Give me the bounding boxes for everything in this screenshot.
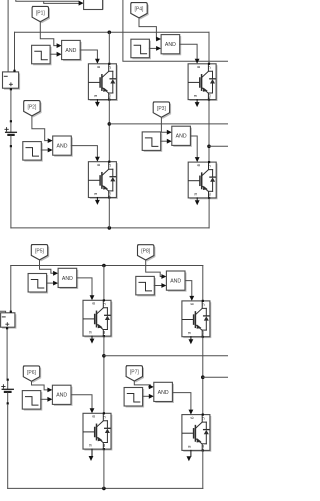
DC voltage source 2 bbox=[2, 314, 16, 328]
tag P2 (From) bbox=[24, 101, 42, 118]
AND gate U6 bbox=[52, 385, 72, 406]
transistor IGBT2 bbox=[188, 63, 217, 101]
wire: P6 to AND6 input 1 bbox=[32, 381, 48, 390]
wire: bus1 to IGBT1 collector bbox=[108, 32, 110, 62]
transistor IGBT1 bbox=[88, 63, 117, 101]
AND gate U5 bbox=[58, 268, 78, 289]
pulse generator P4 bbox=[131, 39, 151, 59]
svg-text:[P3]: [P3] bbox=[157, 106, 167, 112]
wire: pulse4 to AND4 input 2 bbox=[149, 47, 156, 49]
wire: AND4 output to IGBT2 gate bbox=[180, 44, 197, 61]
DC voltage source 1 bbox=[4, 73, 20, 89]
wire: battery 1 to bottom bus 1 bbox=[10, 147, 12, 228]
wire: IGBT1 emitter to node A and IGBT3 collector bbox=[108, 100, 110, 162]
wire: IGBT4 m port stub bbox=[196, 198, 198, 201]
wire: IGBT6 m port stub bbox=[190, 337, 192, 340]
node: bus2 bottom / IGBT7 emitter bbox=[102, 487, 106, 491]
pulse generator P1 bbox=[32, 45, 52, 65]
wire: bus1 right corner down to IGBT2 collector bbox=[208, 32, 210, 63]
wire: IGBT2 emitter to node B and IGBT4 collector bbox=[208, 100, 210, 163]
wire: P3 to AND3 input 1 bbox=[161, 117, 166, 132]
transistor IGBT3 bbox=[88, 161, 117, 199]
svg-text:[P2]: [P2] bbox=[27, 105, 37, 111]
svg-text:[P6]: [P6] bbox=[27, 370, 37, 376]
wire: pulse8 to AND8 input 2 bbox=[154, 285, 161, 287]
wire: IGBT3 emitter to bottom bus 1 bbox=[108, 198, 110, 228]
pulse generator P2 bbox=[23, 142, 43, 162]
pulse generator P8 bbox=[136, 276, 156, 296]
wire: AND6 output to IGBT7 gate bbox=[71, 395, 92, 411]
wire: P4 to AND4 input 1 bbox=[139, 18, 157, 39]
wire: AND2 output to IGBT3 gate bbox=[71, 146, 97, 160]
tag P3 (From) bbox=[153, 102, 171, 119]
wire: IGBT7 m port stub bbox=[91, 449, 93, 456]
wire: AND7 output to IGBT8 gate bbox=[173, 393, 191, 413]
transistor IGBT7 bbox=[83, 412, 112, 450]
svg-text:[P5]: [P5] bbox=[35, 249, 45, 255]
tag P6 (From) bbox=[23, 366, 41, 383]
tag P4 (From) bbox=[131, 3, 149, 20]
wire: P7 to AND7 input 1 bbox=[134, 381, 150, 387]
wire: bottom DC bus 1 bbox=[11, 227, 209, 229]
wire: P5 to AND5 input 1 bbox=[40, 260, 53, 273]
wire: top bus 2 drop to DC source 2 bbox=[10, 266, 12, 311]
node B: leg B midpoint bbox=[207, 145, 211, 149]
wire: source 2 to battery 2 bbox=[6, 329, 8, 378]
AND gate U3 bbox=[172, 126, 192, 147]
wire: pulse5 to AND5 input 2 bbox=[47, 282, 53, 284]
wire: node B2 output to right edge bbox=[203, 376, 228, 378]
battery element 1 bbox=[10, 120, 12, 122]
wire: source 1 to battery 1 bbox=[10, 90, 12, 120]
wire: left feed into DC source 1 bbox=[7, 0, 9, 72]
wire: node A2 output to right edge bbox=[104, 355, 228, 357]
wire: node A output to right edge bbox=[109, 123, 228, 125]
wire: P1 to AND1 input 1 bbox=[40, 21, 56, 45]
wire: IGBT7 emitter to bottom bus 2 bbox=[103, 449, 105, 488]
svg-text:[P7]: [P7] bbox=[130, 370, 140, 376]
wire: IGBT1 m port stub bbox=[96, 100, 98, 103]
wire: double signal line to top scope bbox=[16, 0, 79, 3]
tag P5 (From) bbox=[31, 245, 49, 262]
pulse generator P7 bbox=[124, 388, 144, 408]
node: bus2 / IGBT5 collector bbox=[102, 264, 106, 268]
battery element 2 bbox=[7, 379, 9, 381]
node B2: bridge 2 leg B midpoint bbox=[201, 375, 205, 379]
AND gate U7 bbox=[154, 382, 174, 403]
tag P7 (From) bbox=[126, 366, 144, 383]
node A2: bridge 2 leg A midpoint bbox=[102, 354, 106, 358]
wire: AND3 output to IGBT4 gate bbox=[191, 136, 198, 160]
wire: IGBT2 m port stub bbox=[196, 100, 198, 103]
wire: AND8 output to IGBT6 gate bbox=[185, 281, 192, 299]
transistor IGBT8 bbox=[182, 414, 211, 452]
transistor IGBT4 bbox=[188, 161, 217, 199]
pulse generator P5 bbox=[28, 274, 48, 294]
wire: bus2 right corner down to IGBT6 collector bbox=[202, 266, 204, 301]
AND gate U4 bbox=[161, 35, 181, 56]
wire: pulse7 to AND7 input 2 bbox=[143, 395, 149, 397]
wire: P2 to AND2 input 1 bbox=[32, 116, 48, 141]
AND gate U8 bbox=[166, 271, 186, 292]
wire: battery 2 to bottom bus 2 bbox=[7, 405, 9, 489]
pulse generator P3 bbox=[142, 132, 162, 152]
node: bus1 bottom / IGBT3 emitter bbox=[108, 226, 112, 230]
arrowhead into scope block bbox=[79, 1, 84, 6]
pulse generator P6 bbox=[22, 391, 42, 411]
wire: pulse6 to AND6 input 2 bbox=[41, 398, 47, 400]
wire: top bus drop to DC source 1 + bbox=[14, 32, 16, 70]
wire: long feed at right, from top edge across under pulse P4 bbox=[123, 0, 228, 61]
wire: bus2 to IGBT5 collector bbox=[103, 266, 105, 300]
AND gate U1 bbox=[62, 40, 82, 61]
node: bus1 / IGBT1 collector bbox=[108, 31, 112, 35]
wire: top DC bus 1 bbox=[15, 31, 210, 33]
tag P1 (From) bbox=[32, 6, 50, 23]
wire: top DC bus 2 bbox=[11, 265, 203, 267]
wire: node B output to right edge bbox=[209, 145, 228, 147]
wire: IGBT8 emitter to bottom bus 2 bbox=[202, 450, 204, 488]
svg-text:[P1]: [P1] bbox=[36, 10, 46, 16]
wire: AND5 output to IGBT5 gate bbox=[77, 278, 92, 298]
wire: IGBT4 emitter to bottom bus 1 bbox=[208, 198, 210, 228]
wire: pulse2 to AND2 input 2 bbox=[41, 149, 47, 151]
transistor IGBT5 bbox=[83, 299, 112, 337]
wire: P8 to AND8 input 1 bbox=[146, 260, 162, 277]
node A: leg A midpoint bbox=[108, 122, 112, 126]
wire: IGBT3 m port stub bbox=[96, 198, 98, 201]
wire: inlet into DC source 2 from left edge bbox=[0, 311, 6, 313]
svg-text:[P8]: [P8] bbox=[141, 249, 151, 255]
wire: bottom DC bus 2 bbox=[8, 487, 203, 489]
wire: IGBT5 emitter to node A2 and IGBT7 collector bbox=[103, 336, 105, 413]
svg-text:[P4]: [P4] bbox=[135, 7, 145, 13]
wire: IGBT8 m port stub bbox=[190, 450, 192, 456]
AND gate U2 bbox=[53, 136, 73, 157]
wire: AND1 output to IGBT1 gate bbox=[80, 50, 97, 62]
scope block (clipped at top edge) bbox=[85, 0, 104, 10]
tag P8 (From) bbox=[138, 245, 156, 262]
transistor IGBT6 bbox=[182, 300, 211, 338]
wire: pulse3 to AND3 input 2 bbox=[161, 140, 167, 142]
wire: pulse1 to AND1 input 2 bbox=[50, 53, 56, 55]
wire: IGBT5 m port stub bbox=[91, 336, 93, 339]
wire: IGBT6 emitter to node B2 and IGBT8 collector bbox=[202, 337, 204, 415]
